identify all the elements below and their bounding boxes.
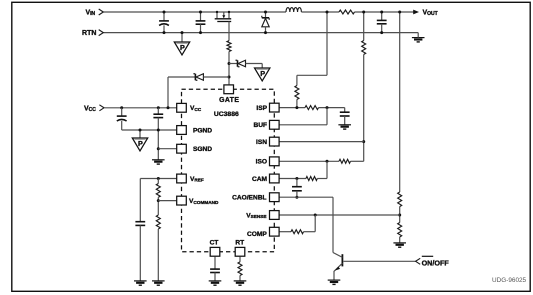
svg-text:VCOMMAND: VCOMMAND [189, 198, 219, 205]
svg-text:CT: CT [210, 240, 219, 247]
svg-text:BUF: BUF [253, 122, 267, 129]
svg-text:GATE: GATE [219, 97, 239, 104]
svg-text:P: P [180, 43, 185, 52]
svg-text:UC3886: UC3886 [214, 111, 239, 118]
svg-text:ISN: ISN [256, 139, 267, 146]
svg-text:SGND: SGND [193, 146, 212, 153]
svg-text:RT: RT [235, 240, 244, 247]
svg-text:CAM: CAM [252, 176, 268, 183]
svg-text:P: P [260, 69, 265, 78]
svg-text:VREF: VREF [190, 176, 204, 183]
svg-text:VCC: VCC [190, 105, 202, 112]
svg-text:VSENSE: VSENSE [246, 212, 266, 219]
svg-text:VOUT: VOUT [423, 9, 438, 17]
svg-text:VCC: VCC [84, 105, 96, 113]
svg-text:PGND: PGND [193, 127, 212, 134]
svg-text:P: P [138, 139, 143, 148]
svg-text:RTN: RTN [82, 30, 96, 37]
svg-text:COMP: COMP [247, 231, 267, 238]
svg-text:ISP: ISP [256, 105, 267, 112]
svg-text:CAO/ENBL: CAO/ENBL [232, 195, 266, 202]
svg-text:ON/OFF: ON/OFF [422, 258, 450, 267]
svg-text:UDG-96025: UDG-96025 [492, 277, 527, 284]
svg-text:VIN: VIN [86, 9, 96, 17]
svg-text:ISO: ISO [256, 159, 267, 166]
